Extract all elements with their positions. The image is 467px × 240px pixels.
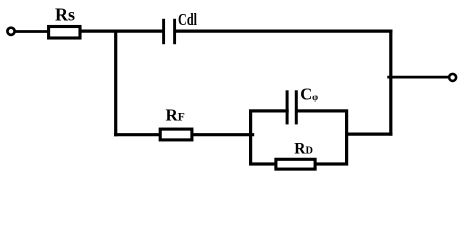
wire: node A down to bottom branch (114, 30, 117, 137)
wire: top-right vertical through node C (389, 30, 392, 136)
svg-text:Cφ: Cφ (300, 84, 318, 103)
svg-text:Cdl: Cdl (178, 10, 197, 29)
parallel network loop (Cphi / RD) (251, 111, 347, 164)
terminal T2 (right output) (449, 74, 456, 81)
wire: node C to output terminal (387, 76, 448, 79)
terminal T1 (left input) (7, 28, 14, 35)
resistor Rs (49, 27, 80, 39)
svg-text:RF: RF (166, 105, 185, 124)
svg-text:RD: RD (294, 141, 313, 158)
svg-text:Rs: Rs (55, 5, 75, 25)
wire: RF to parallel RC network (192, 133, 254, 136)
resistor RD (276, 159, 315, 169)
wire: input terminal to Rs (15, 30, 49, 33)
wire: bottom-left corner to RF (114, 133, 161, 136)
gap in loop top edge for capacitor (289, 107, 295, 115)
wire: Rs through node A to Cdl (80, 30, 164, 33)
capacitor Cphi (287, 90, 296, 124)
wire: network to node C (346, 133, 392, 136)
capacitor Cdl (164, 19, 175, 44)
resistor RF (160, 129, 192, 140)
wire: Cdl to top-right corner (175, 30, 392, 33)
